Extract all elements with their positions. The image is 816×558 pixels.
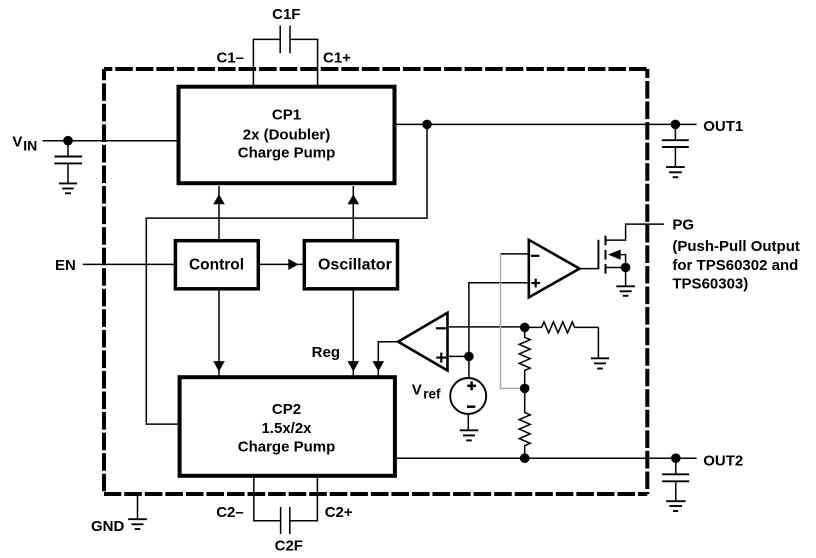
- ground Q1: [616, 286, 635, 296]
- capacitor OUT2: [662, 458, 689, 500]
- node VIN junction: [63, 136, 73, 146]
- wire Control to Oscillator with arrow: [258, 259, 304, 270]
- svg-text:CP1: CP1: [272, 107, 301, 124]
- source Vref: [450, 378, 486, 414]
- svg-text:C2–: C2–: [216, 504, 244, 521]
- svg-text:PG: PG: [672, 217, 694, 234]
- wire CP1 output to OUT1: [395, 123, 697, 125]
- resistor R2 lower: [519, 388, 530, 458]
- wire U2 output Reg arrow: [373, 342, 399, 376]
- wire Vref to ground: [467, 414, 469, 429]
- node feedback top: [520, 323, 530, 333]
- op-amp U2 error amp: [398, 313, 447, 371]
- wire gray feedback tap: [501, 254, 525, 389]
- wire U1 plus input: [469, 283, 529, 378]
- capacitor OUT1: [662, 124, 689, 166]
- block Oscillator: [304, 241, 397, 289]
- svg-text:OUT2: OUT2: [703, 453, 743, 470]
- block CP1: [179, 87, 395, 184]
- Q1 body arrow: [608, 250, 621, 260]
- wire U1 output to gate: [580, 268, 599, 270]
- wire Control to CP1 arrow: [213, 186, 225, 241]
- label VIN: [12, 134, 37, 154]
- svg-text:GND: GND: [91, 518, 125, 535]
- svg-text:C2F: C2F: [275, 537, 303, 554]
- svg-text:Charge Pump: Charge Pump: [238, 145, 336, 162]
- wire Oscillator to CP2 arrow: [348, 289, 360, 376]
- IC boundary dashed box: [104, 69, 648, 494]
- node OUT2 cap: [671, 453, 681, 463]
- op-amp U1 comparator: [529, 240, 580, 298]
- svg-text:OUT1: OUT1: [703, 118, 743, 135]
- node feedback mid: [520, 384, 530, 394]
- svg-text:EN: EN: [55, 257, 76, 274]
- svg-text:1.5x/2x: 1.5x/2x: [261, 420, 312, 437]
- node R2 OUT2: [520, 453, 530, 463]
- ground OUT2: [666, 501, 685, 511]
- capacitor VIN bypass: [54, 141, 82, 183]
- block CP2: [180, 377, 395, 476]
- ground GND pin: [128, 495, 147, 529]
- svg-text:Control: Control: [189, 257, 244, 274]
- label PG: [672, 217, 799, 293]
- svg-text:(Push-Pull Output: (Push-Pull Output: [672, 238, 799, 255]
- svg-text:Reg: Reg: [312, 344, 340, 361]
- wire U2 minus input: [448, 326, 525, 328]
- ground VIN: [59, 183, 77, 193]
- label Vref: [412, 381, 441, 401]
- node OUT1 branch: [422, 120, 432, 130]
- svg-text:C2+: C2+: [325, 504, 353, 521]
- capacitor C1F: [253, 26, 317, 85]
- node OUT1 cap: [671, 120, 681, 130]
- capacitor C2F: [254, 476, 318, 534]
- svg-text:Charge Pump: Charge Pump: [238, 439, 336, 456]
- wire EN to Control: [83, 263, 176, 265]
- wire R3 to ground: [597, 327, 599, 357]
- svg-text:C1F: C1F: [272, 6, 300, 23]
- block Control: [175, 241, 258, 289]
- svg-text:IN: IN: [23, 137, 37, 153]
- svg-text:C1–: C1–: [216, 50, 244, 67]
- ground R3: [591, 358, 609, 368]
- svg-text:V: V: [412, 381, 422, 398]
- ground OUT1: [666, 167, 685, 177]
- wire Control to CP2 arrow: [213, 289, 225, 376]
- wire U1 minus input: [501, 253, 529, 255]
- resistor R1 upper: [519, 327, 530, 388]
- node U2 plus Vref: [464, 352, 474, 362]
- wire VIN to CP1: [43, 140, 179, 142]
- wire Oscillator to CP1 arrow: [348, 186, 360, 241]
- wire OUT1 feedback loop: [146, 124, 427, 424]
- wire U2 plus input: [448, 355, 469, 357]
- wire CP2 output to OUT2: [395, 457, 697, 459]
- svg-text:ref: ref: [423, 386, 441, 401]
- svg-text:Oscillator: Oscillator: [318, 257, 392, 274]
- svg-text:V: V: [12, 134, 22, 151]
- resistor R3 horizontal: [525, 322, 599, 333]
- svg-text:CP2: CP2: [272, 401, 301, 418]
- transistor Q1 PG mosfet: [598, 224, 664, 274]
- svg-text:2x (Doubler): 2x (Doubler): [243, 126, 331, 143]
- svg-text:for TPS60302 and: for TPS60302 and: [672, 257, 798, 274]
- node Q1 source: [621, 263, 631, 273]
- svg-text:TPS60303): TPS60303): [672, 276, 748, 293]
- svg-text:C1+: C1+: [323, 50, 351, 67]
- wire Q1 source to ground: [625, 268, 627, 286]
- ground Vref: [460, 430, 479, 440]
